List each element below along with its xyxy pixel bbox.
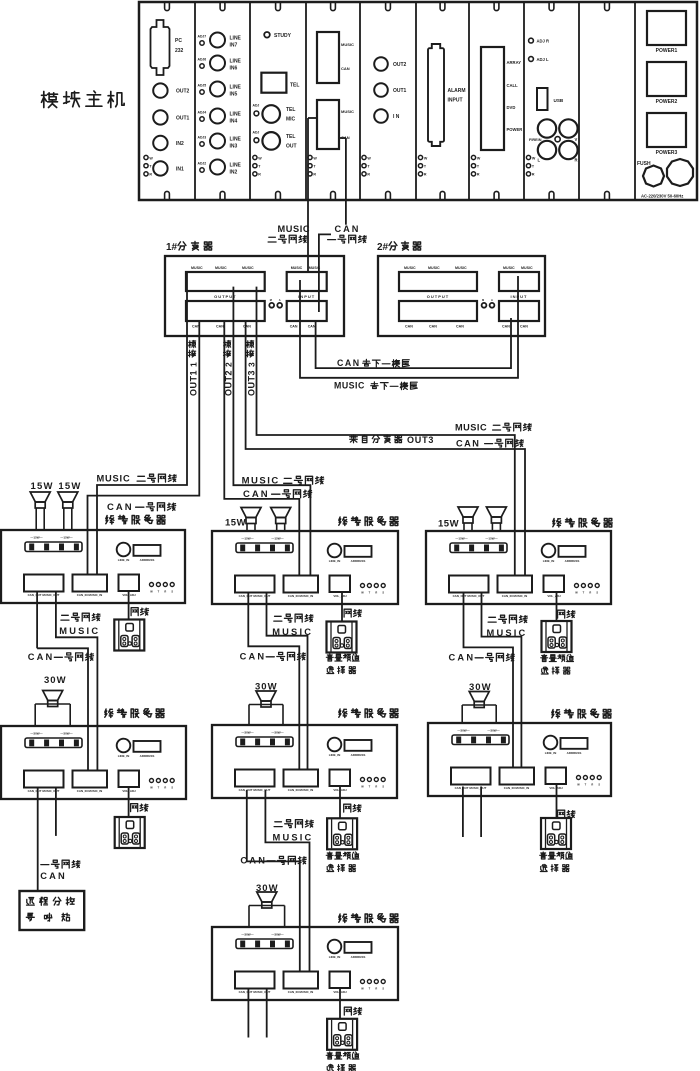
svg-text:MUSIC: MUSIC xyxy=(334,381,365,391)
svg-text:R: R xyxy=(367,173,370,177)
svg-text:CAN_IN MUSIC_IN: CAN_IN MUSIC_IN xyxy=(502,594,527,598)
svg-text:STUDY: STUDY xyxy=(274,33,292,39)
svg-text:ADJ: ADJ xyxy=(253,131,260,135)
svg-text:POWER3: POWER3 xyxy=(656,150,678,156)
svg-text:A: A xyxy=(491,298,493,302)
svg-text:LINE_IN: LINE_IN xyxy=(329,559,341,563)
svg-text:INPUT: INPUT xyxy=(511,294,528,299)
svg-text:OUT1: OUT1 xyxy=(393,88,407,94)
svg-text:IN5: IN5 xyxy=(230,92,238,98)
svg-text:—15W—: —15W— xyxy=(60,536,72,540)
svg-text:W: W xyxy=(149,156,153,160)
svg-text:30W: 30W xyxy=(44,675,67,686)
svg-text:ADDRESS: ADDRESS xyxy=(140,558,155,562)
svg-text:—30W—: —30W— xyxy=(271,933,283,937)
svg-text:MUSIC: MUSIC xyxy=(59,626,100,636)
svg-text:CAN: CAN xyxy=(335,224,361,234)
svg-text:LINE: LINE xyxy=(230,112,242,118)
svg-text:R: R xyxy=(575,158,578,163)
svg-text:MUSIC: MUSIC xyxy=(503,266,515,270)
svg-text:ADDRESS: ADDRESS xyxy=(351,955,366,959)
svg-text:R: R xyxy=(477,173,480,177)
svg-text:LINE: LINE xyxy=(230,59,242,65)
svg-text:ARRAY: ARRAY xyxy=(507,60,522,65)
svg-text:CAN_IN MUSIC_IN: CAN_IN MUSIC_IN xyxy=(504,786,529,790)
svg-text:MUSIC: MUSIC xyxy=(242,476,280,487)
svg-text:CAN_OUT MUSIC_OUT: CAN_OUT MUSIC_OUT xyxy=(453,594,485,598)
svg-text:OUT1: OUT1 xyxy=(176,115,190,121)
svg-text:IN1: IN1 xyxy=(176,166,184,172)
svg-text:R: R xyxy=(149,173,152,177)
svg-text:VOL_ADJ: VOL_ADJ xyxy=(547,594,561,598)
svg-text:CAN: CAN xyxy=(456,439,480,449)
svg-text:CAN: CAN xyxy=(341,66,350,71)
svg-text:IN2: IN2 xyxy=(176,141,184,147)
svg-text:CAN_IN MUSIC_IN: CAN_IN MUSIC_IN xyxy=(288,788,313,792)
svg-text:CAN: CAN xyxy=(40,871,67,881)
svg-text:MUSIC: MUSIC xyxy=(455,423,487,433)
svg-text:CAN_IN MUSIC_IN: CAN_IN MUSIC_IN xyxy=(77,593,102,597)
svg-text:ADJ5: ADJ5 xyxy=(198,84,207,88)
svg-text:IN6: IN6 xyxy=(230,66,238,72)
svg-text:15W: 15W xyxy=(438,519,459,530)
svg-text:OUT2: OUT2 xyxy=(224,370,234,396)
svg-text:ADDRESS: ADDRESS xyxy=(351,753,366,757)
svg-text:ALARM: ALARM xyxy=(448,88,466,94)
svg-text:TEL: TEL xyxy=(286,107,295,113)
svg-text:R: R xyxy=(532,173,535,177)
svg-text:MUSIC: MUSIC xyxy=(242,266,254,270)
svg-text:OUT1: OUT1 xyxy=(189,370,199,396)
svg-text:OUT2: OUT2 xyxy=(176,89,190,95)
svg-text:S: S xyxy=(598,783,600,787)
svg-text:IN4: IN4 xyxy=(230,119,238,125)
svg-text:S: S xyxy=(382,591,384,595)
svg-text:ADJ L: ADJ L xyxy=(537,57,550,62)
svg-text:15W: 15W xyxy=(58,481,81,492)
svg-text:POWER2: POWER2 xyxy=(656,99,678,105)
svg-text:R: R xyxy=(258,173,261,177)
svg-text:LINE: LINE xyxy=(230,85,242,91)
svg-text:R: R xyxy=(375,785,377,789)
svg-text:TEL: TEL xyxy=(290,83,299,89)
svg-text:MUSIC: MUSIC xyxy=(291,266,303,270)
svg-text:CALL: CALL xyxy=(507,83,519,88)
svg-text:I N: I N xyxy=(393,114,400,120)
svg-text:CAN: CAN xyxy=(243,489,270,500)
svg-text:ADDRESS: ADDRESS xyxy=(351,559,366,563)
svg-text:—15W—: —15W— xyxy=(271,537,283,541)
svg-text:POWER: POWER xyxy=(507,127,523,132)
svg-text:LINE: LINE xyxy=(230,163,242,169)
svg-text:CAN: CAN xyxy=(449,653,476,663)
svg-text:—30W—: —30W— xyxy=(241,731,253,735)
svg-text:ADJ: ADJ xyxy=(253,104,260,108)
svg-text:MUSIC: MUSIC xyxy=(341,42,354,47)
svg-text:CAN: CAN xyxy=(502,325,510,329)
svg-text:LINE_IN: LINE_IN xyxy=(543,559,555,563)
svg-text:R: R xyxy=(375,591,377,595)
svg-text:CAN_IN MUSIC_IN: CAN_IN MUSIC_IN xyxy=(288,594,313,598)
svg-text:CAN: CAN xyxy=(429,325,437,329)
svg-text:S: S xyxy=(171,786,173,790)
svg-text:OUT3: OUT3 xyxy=(247,370,257,396)
svg-text:1: 1 xyxy=(189,362,199,367)
svg-text:A: A xyxy=(279,298,281,302)
svg-text:ADDRESS: ADDRESS xyxy=(140,754,155,758)
svg-text:CAN: CAN xyxy=(290,325,298,329)
svg-text:POWER1: POWER1 xyxy=(656,48,678,54)
svg-text:DVD: DVD xyxy=(507,105,516,110)
svg-text:IN3: IN3 xyxy=(230,144,238,150)
svg-text:AC-220/230V 50-60Hz: AC-220/230V 50-60Hz xyxy=(641,194,683,199)
svg-text:MUSIC: MUSIC xyxy=(404,266,416,270)
svg-text:OUT: OUT xyxy=(286,144,297,150)
svg-text:USB: USB xyxy=(554,98,564,103)
svg-text:W: W xyxy=(532,156,536,160)
svg-text:—30W—: —30W— xyxy=(457,729,469,733)
svg-text:W: W xyxy=(424,156,428,160)
svg-text:VOL_ADJ: VOL_ADJ xyxy=(333,594,347,598)
svg-text:MUSIC: MUSIC xyxy=(215,266,227,270)
svg-text:LINE_IN: LINE_IN xyxy=(118,558,130,562)
svg-text:ADJ R: ADJ R xyxy=(537,39,550,44)
svg-text:LINE_IN: LINE_IN xyxy=(329,753,341,757)
svg-text:232: 232 xyxy=(175,48,184,54)
svg-text:—30W—: —30W— xyxy=(241,933,253,937)
svg-text:MUSIC: MUSIC xyxy=(341,109,354,114)
svg-text:R: R xyxy=(375,987,377,991)
svg-text:—15W—: —15W— xyxy=(30,536,42,540)
svg-text:R: R xyxy=(164,786,166,790)
svg-text:ADDRESS: ADDRESS xyxy=(567,751,582,755)
svg-text:W: W xyxy=(367,156,371,160)
svg-text:TEL: TEL xyxy=(286,134,295,140)
svg-text:M: M xyxy=(270,298,272,302)
svg-text:—15W—: —15W— xyxy=(485,537,497,541)
svg-text:MUSIC: MUSIC xyxy=(273,833,314,843)
svg-text:S: S xyxy=(382,785,384,789)
svg-text:CAN_IN MUSIC_IN: CAN_IN MUSIC_IN xyxy=(77,789,102,793)
svg-text:W: W xyxy=(477,156,481,160)
svg-text:CAN: CAN xyxy=(456,325,464,329)
svg-text:2: 2 xyxy=(224,362,234,367)
svg-text:ADJ2: ADJ2 xyxy=(198,162,207,166)
svg-text:CAN: CAN xyxy=(308,325,316,329)
svg-text:CAN: CAN xyxy=(107,502,134,513)
svg-text:CAN: CAN xyxy=(405,325,413,329)
svg-text:MUSIC: MUSIC xyxy=(278,224,311,234)
svg-text:3: 3 xyxy=(247,362,257,367)
svg-text:FUSH: FUSH xyxy=(637,161,651,167)
svg-text:—30W—: —30W— xyxy=(271,731,283,735)
svg-text:PC: PC xyxy=(175,38,182,44)
svg-text:OUTPUT: OUTPUT xyxy=(427,294,449,299)
svg-text:ADDRESS: ADDRESS xyxy=(565,559,580,563)
svg-text:R: R xyxy=(591,783,593,787)
svg-text:CAN: CAN xyxy=(243,325,251,329)
svg-text:CAN: CAN xyxy=(28,652,55,662)
svg-text:15W: 15W xyxy=(225,518,246,529)
svg-text:W: W xyxy=(313,156,317,160)
svg-text:S: S xyxy=(171,590,173,594)
svg-text:—15W—: —15W— xyxy=(241,537,253,541)
svg-text:—30W—: —30W— xyxy=(487,729,499,733)
svg-text:CAN_OUT MUSIC_OUT: CAN_OUT MUSIC_OUT xyxy=(28,593,60,597)
svg-text:S: S xyxy=(596,591,598,595)
svg-text:V: V xyxy=(575,137,578,142)
svg-text:ADJ3: ADJ3 xyxy=(198,136,207,140)
svg-text:R: R xyxy=(424,173,427,177)
svg-text:MIC: MIC xyxy=(286,117,296,123)
svg-text:LINE: LINE xyxy=(230,36,242,42)
svg-text:—30W—: —30W— xyxy=(60,732,72,736)
svg-text:R: R xyxy=(164,590,166,594)
svg-text:MUSIC: MUSIC xyxy=(191,266,203,270)
svg-text:—15W—: —15W— xyxy=(455,537,467,541)
svg-text:MUSIC: MUSIC xyxy=(97,474,131,484)
svg-text:CAN: CAN xyxy=(240,856,267,866)
svg-text:S: S xyxy=(382,987,384,991)
svg-text:R: R xyxy=(589,591,591,595)
svg-text:IN2: IN2 xyxy=(230,170,238,176)
svg-text:MUSIC: MUSIC xyxy=(455,266,467,270)
svg-text:CAN: CAN xyxy=(337,358,361,368)
svg-text:15W: 15W xyxy=(31,481,54,492)
svg-text:ADJ4: ADJ4 xyxy=(198,111,207,115)
svg-text:OUT2: OUT2 xyxy=(393,62,407,68)
svg-text:LINE_IN: LINE_IN xyxy=(118,754,130,758)
svg-text:R: R xyxy=(313,173,316,177)
svg-text:LINE: LINE xyxy=(230,137,242,143)
svg-text:ADJ6: ADJ6 xyxy=(198,58,207,62)
svg-text:1#: 1# xyxy=(166,242,178,253)
svg-text:MUSIC: MUSIC xyxy=(309,266,321,270)
svg-text:W: W xyxy=(258,156,262,160)
svg-text:MUSIC: MUSIC xyxy=(521,266,533,270)
svg-text:LINE_IN: LINE_IN xyxy=(545,751,557,755)
svg-text:INPUT: INPUT xyxy=(448,98,463,104)
svg-text:M: M xyxy=(482,298,484,302)
svg-text:L: L xyxy=(538,158,541,163)
svg-text:FIREIN: FIREIN xyxy=(529,138,542,142)
svg-text:CAN: CAN xyxy=(240,652,267,662)
svg-text:ADJ7: ADJ7 xyxy=(198,35,207,39)
svg-text:LINE_IN: LINE_IN xyxy=(329,955,341,959)
svg-text:—30W—: —30W— xyxy=(30,732,42,736)
svg-text:IN7: IN7 xyxy=(230,43,238,49)
svg-text:MUSIC: MUSIC xyxy=(272,627,313,637)
svg-text:CAN: CAN xyxy=(216,325,224,329)
svg-text:CAN_IN MUSIC_IN: CAN_IN MUSIC_IN xyxy=(288,990,313,994)
svg-text:CAN_OUT MUSIC_OUT: CAN_OUT MUSIC_OUT xyxy=(28,789,60,793)
svg-text:OUT3: OUT3 xyxy=(407,435,434,445)
svg-text:CAN: CAN xyxy=(520,325,528,329)
svg-text:2#: 2# xyxy=(377,242,389,253)
svg-text:MUSIC: MUSIC xyxy=(428,266,440,270)
svg-text:MUSIC: MUSIC xyxy=(487,628,528,638)
